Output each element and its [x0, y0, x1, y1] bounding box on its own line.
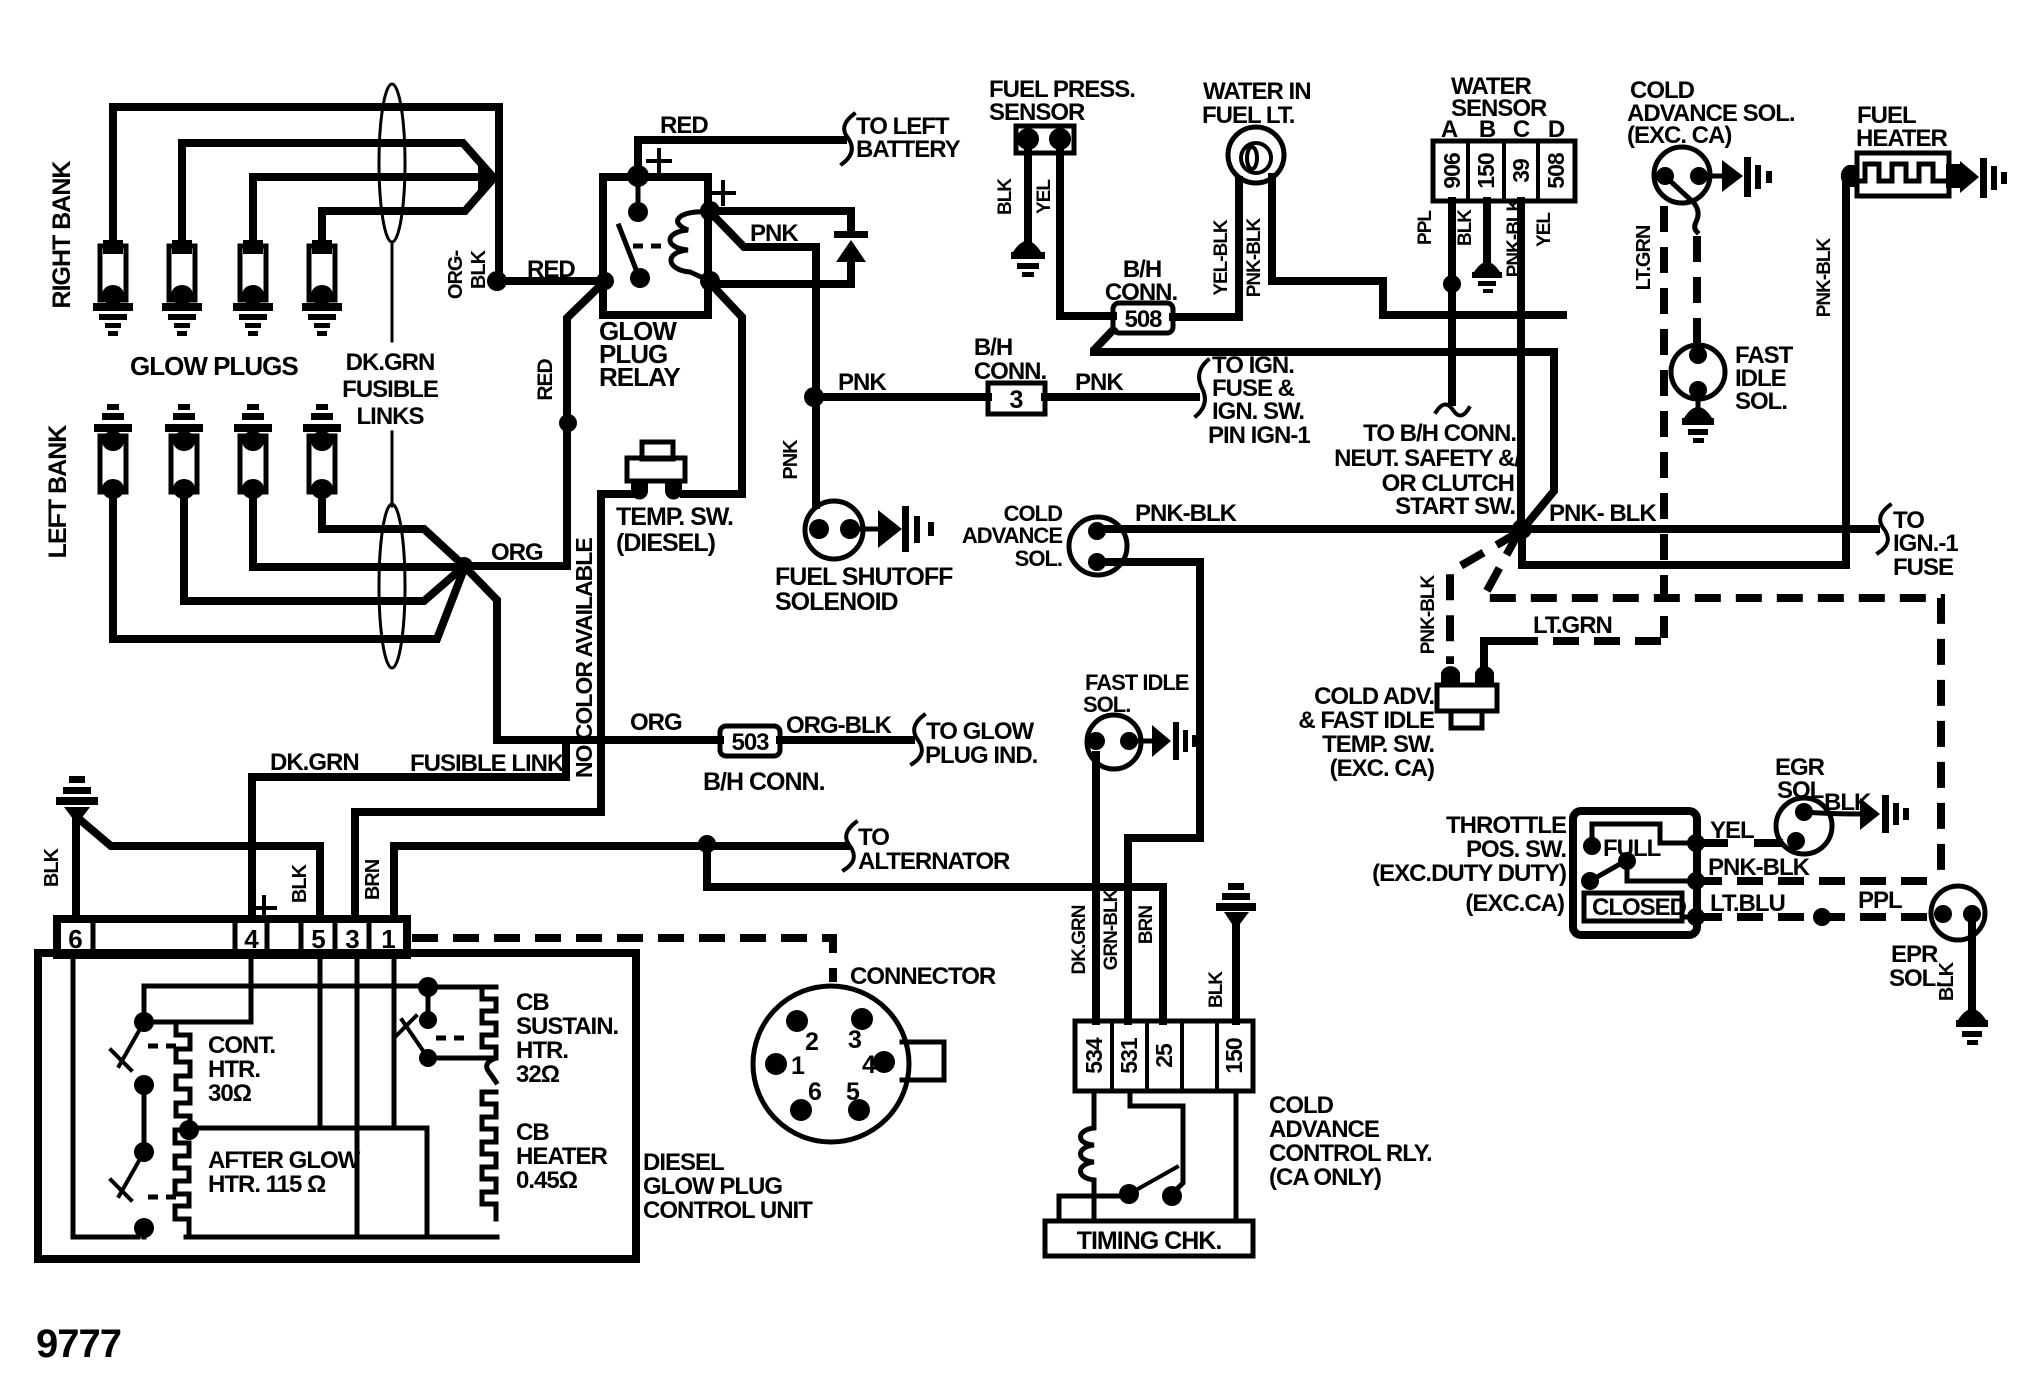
label CB HEATER 0.45: [516, 1119, 608, 1194]
svg-text:DK.GRN: DK.GRN: [346, 349, 435, 376]
plus sign coil: [712, 182, 734, 204]
connector pin 1: [765, 1052, 805, 1080]
label B/H CONN. 508: [1105, 256, 1178, 306]
svg-text:ORG: ORG: [491, 539, 543, 566]
wire alternator branch to conn 25: [707, 844, 1163, 1021]
wire PNK-BLK lamp to water sensor D: [1272, 177, 1563, 315]
wire temp sw module right lug riser: [1484, 641, 1514, 666]
svg-text:TO GLOW: TO GLOW: [926, 718, 1035, 745]
wire PNK from coil+ down: [712, 214, 816, 397]
wire YEL to EGR sol: [1696, 839, 1779, 847]
water sensor pin letters A B C D: [1441, 116, 1565, 143]
CB sustain link dashes: [436, 1036, 468, 1041]
wire switch1 to switch2: [142, 1085, 147, 1152]
svg-text:NEUT. SAFETY &/: NEUT. SAFETY &/: [1334, 445, 1521, 472]
throttle switch PNK-BLK terminal: [1687, 872, 1705, 890]
bracket TO GLOW PLUG IND: [912, 715, 924, 764]
svg-text:PIN IGN-1: PIN IGN-1: [1208, 422, 1310, 449]
label COLD ADVANCE SOL. middle: [962, 501, 1062, 571]
B/H connector 508: [1113, 303, 1173, 333]
label TO LEFT BATTERY: [856, 113, 961, 163]
junction dot LT.BLU PPL splice: [1813, 908, 1831, 926]
svg-text:ORG: ORG: [630, 709, 682, 736]
svg-text:SENSOR: SENSOR: [989, 99, 1085, 126]
bracket TO IGN FUSE: [1196, 360, 1208, 416]
wire dashed cold adv sol to fast idle sol: [1693, 236, 1701, 346]
label COLD ADVANCE CONTROL RLY. (CA ONLY): [1269, 1092, 1432, 1191]
svg-text:CB: CB: [516, 989, 549, 1016]
resistor CB SUSTAIN HTR. 32ohm: [482, 987, 496, 1082]
fusible links bundle line lower: [391, 432, 394, 506]
svg-text:25: 25: [1151, 1043, 1177, 1068]
svg-text:PNK-BLK: PNK-BLK: [1814, 237, 1835, 317]
svg-text:CONNECTOR: CONNECTOR: [850, 963, 996, 990]
label TO GLOW PLUG IND.: [925, 718, 1038, 769]
glow plug right bank 1: [93, 240, 133, 336]
svg-text:531: 531: [1116, 1037, 1142, 1074]
svg-text:TIMING CHK.: TIMING CHK.: [1077, 1227, 1222, 1255]
svg-text:5: 5: [846, 1078, 860, 1106]
glow plug left bank 2: [165, 404, 203, 499]
CB sustain moving contact: [419, 1049, 437, 1067]
control unit pin row: [57, 919, 407, 955]
wire RED to relay: [497, 277, 603, 285]
relay switch input dot: [596, 272, 614, 290]
ground fast idle sol mid: [1152, 722, 1197, 760]
svg-text:B/H: B/H: [974, 334, 1012, 361]
fuel heater left lug: [1841, 165, 1858, 187]
svg-text:SOL.: SOL.: [1889, 965, 1941, 992]
wire dashed pin1 to connector: [412, 938, 833, 982]
CB sustain bottom wire: [428, 1056, 496, 1061]
wire switch2 bottom: [142, 1228, 147, 1237]
CA relay switch blade: [1129, 1167, 1177, 1194]
label THROTTLE POS. SW.: [1372, 812, 1567, 917]
svg-text:BLK: BLK: [41, 847, 63, 887]
wire 508 tail to water sensor A: [1094, 330, 1554, 352]
relay switch blade: [619, 226, 637, 272]
temp sw module right lug: [1475, 666, 1494, 685]
label COLD ADVANCE SOL. (EXC. CA): [1627, 77, 1795, 149]
throttle switch full wire: [1592, 824, 1694, 846]
label CONT. HTR. 30: [208, 1032, 275, 1107]
wire solenoid to ground: [850, 527, 880, 532]
svg-text:9777: 9777: [36, 1322, 121, 1366]
svg-text:ADVANCE: ADVANCE: [962, 523, 1062, 548]
throttle switch CLOSED contact: [1581, 872, 1599, 890]
EGR solenoid: [1776, 798, 1832, 854]
svg-text:CONT.: CONT.: [208, 1032, 275, 1059]
svg-text:(DIESEL): (DIESEL): [616, 529, 716, 557]
svg-text:CONN.: CONN.: [1105, 279, 1178, 306]
throttle pos switch box: [1573, 811, 1697, 935]
label EPR SOL.: [1889, 941, 1941, 992]
svg-text:B/H CONN.: B/H CONN.: [703, 768, 825, 796]
svg-text:RED: RED: [534, 358, 557, 400]
wire ORG junction to relay column: [464, 562, 567, 570]
ground cold adv sol: [1722, 157, 1772, 197]
CA relay switch wire: [1130, 1091, 1183, 1192]
svg-text:508: 508: [1543, 152, 1569, 189]
svg-text:WATER IN: WATER IN: [1203, 78, 1311, 105]
temp switch right lug: [665, 481, 682, 500]
fast idle solenoid middle: [1087, 715, 1141, 769]
svg-text:HEATER: HEATER: [516, 1143, 608, 1170]
svg-text:2: 2: [805, 1028, 818, 1056]
svg-text:GLOW PLUG: GLOW PLUG: [643, 1173, 782, 1200]
label TO B/H CONN. NEUT. SAFETY: [1334, 420, 1521, 520]
switch 1 fixed contact: [134, 1012, 154, 1032]
wire PNK to B/H conn 3: [814, 393, 988, 401]
svg-text:BLK: BLK: [1206, 971, 1227, 1008]
svg-text:HTR.: HTR.: [516, 1037, 568, 1064]
svg-text:BRN: BRN: [1136, 906, 1157, 944]
junction dot PPL: [1443, 275, 1461, 293]
squiggle PPL break: [1436, 404, 1469, 415]
svg-text:HTR. 115 Ω: HTR. 115 Ω: [208, 1171, 326, 1198]
temp sw module left lug: [1441, 666, 1460, 685]
junction dot RED/ORG-BLK: [487, 271, 507, 291]
wire fast idle sol to ground: [1696, 390, 1701, 406]
svg-text:PNK: PNK: [838, 369, 887, 396]
svg-text:3: 3: [848, 1026, 861, 1054]
junction dot PNK-BLK: [1512, 519, 1532, 539]
wire left bank plug4 to junction: [322, 492, 462, 564]
svg-text:PNK- BLK: PNK- BLK: [1549, 500, 1657, 527]
svg-text:ALTERNATOR: ALTERNATOR: [858, 848, 1010, 875]
CA relay coil: [1081, 1091, 1095, 1221]
fast idle solenoid: [1671, 345, 1725, 399]
water in fuel lamp: [1228, 127, 1284, 183]
wire switch feed horizontal: [144, 986, 426, 1015]
wire RED down to ORG junction: [567, 281, 605, 566]
wire PNK-BLK water sensor C: [1517, 201, 1525, 526]
temp sw module body: [1437, 685, 1497, 728]
svg-text:BLK: BLK: [1936, 961, 1958, 1001]
CB sustain switch stem: [426, 987, 431, 1020]
glow plug left bank 3: [234, 404, 272, 499]
svg-text:DK.GRN: DK.GRN: [1069, 905, 1090, 974]
svg-text:SOL: SOL: [1777, 777, 1824, 804]
svg-text:YEL: YEL: [1710, 817, 1754, 844]
ground EPR: [1956, 1009, 1988, 1045]
bracket TO ALTERNATOR: [844, 822, 856, 870]
svg-text:PPL: PPL: [1415, 210, 1436, 245]
wire BLK fuel press sensor: [1024, 153, 1032, 240]
svg-text:SOLENOID: SOLENOID: [775, 588, 898, 616]
svg-text:BLK: BLK: [995, 178, 1016, 215]
wire cont htr top: [190, 1020, 251, 1025]
svg-text:FUEL LT.: FUEL LT.: [1202, 102, 1295, 129]
ground control unit BLK: [56, 776, 98, 819]
svg-text:508: 508: [1124, 306, 1162, 333]
svg-text:(EXC.DUTY DUTY): (EXC.DUTY DUTY): [1372, 860, 1566, 887]
svg-text:DIESEL: DIESEL: [643, 1149, 724, 1176]
svg-text:START SW.: START SW.: [1395, 493, 1515, 520]
connector circle: [753, 986, 909, 1142]
svg-text:EPR: EPR: [1891, 941, 1938, 968]
wire left bank plug3 to junction: [253, 492, 464, 567]
wire right bank plug2 to merge: [182, 143, 492, 240]
wire ORG-BLK to glow plug ind: [780, 736, 911, 744]
switch 1 moving contact: [134, 1075, 154, 1095]
svg-text:534: 534: [1081, 1037, 1107, 1074]
plus sign pin4: [253, 897, 275, 919]
svg-text:FUSIBLE: FUSIBLE: [342, 376, 439, 403]
fusible links bundle line upper: [391, 242, 394, 341]
wire cold adv sol to ground: [1699, 174, 1722, 179]
svg-text:FUSIBLE LINK: FUSIBLE LINK: [410, 750, 565, 777]
switch 2 moving contact: [134, 1218, 154, 1238]
svg-text:BLK: BLK: [1455, 209, 1476, 246]
label AFTER GLOW HTR. 115: [208, 1147, 361, 1198]
wire right bank plug3 to merge: [253, 177, 490, 240]
svg-text:RIGHT BANK: RIGHT BANK: [48, 161, 76, 309]
svg-text:(CA ONLY): (CA ONLY): [1269, 1164, 1381, 1191]
svg-text:PNK: PNK: [750, 220, 799, 247]
svg-text:39: 39: [1508, 159, 1534, 183]
svg-text:6: 6: [808, 1078, 821, 1106]
svg-text:PNK-BLK: PNK-BLK: [1504, 197, 1525, 277]
wire LT.GRN dashed vertical: [1660, 206, 1668, 638]
svg-text:CB: CB: [516, 1119, 549, 1146]
wire heater mid to pin5/pin1: [189, 1128, 497, 1237]
connector pin 5: [846, 1078, 870, 1121]
wire PNK-BLK dashed junction to temp sw module: [1450, 532, 1519, 664]
wire water sensor feed diagonal: [1526, 352, 1554, 525]
EPR solenoid: [1931, 886, 1985, 940]
switch 1 link dashes: [148, 1044, 180, 1049]
svg-text:ORG-BLK: ORG-BLK: [786, 712, 893, 739]
CB sustain top dot: [418, 977, 438, 997]
temp switch left lug: [631, 481, 648, 500]
merge arrowhead right bank: [478, 165, 500, 191]
svg-text:COLD ADV.: COLD ADV.: [1314, 683, 1434, 710]
connector pin 3: [848, 1008, 873, 1054]
glow plug relay box: [603, 177, 708, 315]
wire after glow bottom: [186, 1232, 427, 1237]
wire conn150 to timing chk: [1234, 1091, 1239, 1221]
throttle switch LT.BLU wire: [1682, 915, 1694, 920]
TIMING CHK box: [1045, 1221, 1253, 1256]
svg-text:SOL.: SOL.: [1015, 546, 1062, 571]
svg-text:COLD: COLD: [1269, 1092, 1334, 1119]
wire right bank plug1 to merge: [113, 107, 499, 277]
wire right bank plug4 to merge: [322, 180, 492, 240]
label FUEL SHUTOFF SOLENOID: [775, 563, 953, 616]
label B/H CONN. 3: [974, 334, 1047, 385]
switch 2 link dashes: [148, 1195, 180, 1200]
throttle switch blade: [1590, 860, 1627, 881]
label EGR SOL: [1775, 754, 1825, 804]
svg-text:150: 150: [1473, 153, 1499, 189]
wire BLK ground to conn 150: [1232, 920, 1240, 1021]
fusible links upper ellipse: [379, 84, 405, 242]
wire 508 to water-in-fuel lamp: [1173, 180, 1239, 317]
label TO IGN. FUSE & IGN. SW. PIN IGN-1: [1208, 352, 1310, 449]
wire left bank plug2 to junction: [184, 492, 462, 601]
wire pin6 inside: [73, 955, 138, 1237]
wire junction to ORG feed column: [464, 566, 497, 740]
label FAST IDLE SOL. middle: [1083, 670, 1189, 717]
cold advance control relay connector: [1075, 1021, 1253, 1091]
wire EPR sol to ground: [1968, 914, 1976, 1008]
label WATER SENSOR: [1451, 73, 1547, 122]
wire LT.GRN dashed lower: [1512, 637, 1664, 645]
label GLOW PLUG RELAY: [599, 316, 680, 392]
switch 1 blade: [111, 1022, 144, 1070]
glow plug right bank 4: [302, 240, 342, 336]
svg-text:SUSTAIN.: SUSTAIN.: [516, 1013, 619, 1040]
junction dot heater mid: [179, 1120, 199, 1140]
svg-text:RED: RED: [527, 256, 575, 283]
svg-text:906: 906: [1439, 153, 1465, 189]
glow plug left bank 1: [94, 404, 132, 499]
throttle switch YEL terminal: [1687, 834, 1705, 852]
label DIESEL GLOW PLUG CONTROL UNIT: [643, 1149, 813, 1224]
glow plug right bank 2: [162, 240, 202, 336]
CB sustain switch fixed: [419, 1011, 437, 1029]
ground water sensor B: [1472, 262, 1502, 293]
B/H connector 3: [988, 383, 1045, 414]
svg-text:503: 503: [731, 729, 769, 756]
CB sustain switch blade: [396, 1016, 428, 1058]
svg-text:YEL: YEL: [1534, 212, 1555, 247]
connector tab: [902, 1042, 944, 1080]
svg-text:ADVANCE: ADVANCE: [1269, 1116, 1380, 1143]
wire PNK-BLK dashed junction to throttle loop: [1483, 532, 1941, 881]
wire PNK conn3 to ign fuse: [1045, 393, 1196, 401]
water sensor connector: [1433, 141, 1575, 201]
label FUEL PRESS. SENSOR: [989, 76, 1135, 126]
svg-text:YEL-BLK: YEL-BLK: [1211, 219, 1232, 296]
wire fast idle sol mid to ground: [1129, 739, 1152, 744]
svg-text:CLOSED: CLOSED: [1592, 894, 1687, 921]
wire BRN pin1 to alternator: [394, 846, 846, 919]
svg-text:& FAST IDLE: & FAST IDLE: [1298, 707, 1435, 734]
svg-text:(EXC.CA): (EXC.CA): [1465, 890, 1564, 917]
relay top junction dot: [627, 165, 649, 187]
relay switch wire from top dot: [636, 176, 641, 204]
wire PNK-BLK junction to fuel heater column: [1522, 529, 1846, 565]
wire PNK-BLK dashed throttle: [1696, 877, 1941, 885]
wire BLK ground to pin6: [72, 815, 80, 919]
ground fuel heater: [1960, 158, 2007, 198]
cold advance solenoid exc ca: [1654, 147, 1710, 232]
svg-text:TO B/H CONN.: TO B/H CONN.: [1363, 420, 1516, 447]
cold advance solenoid middle: [1069, 517, 1127, 575]
svg-text:LINKS: LINKS: [357, 403, 425, 430]
svg-text:THROTTLE: THROTTLE: [1446, 812, 1567, 839]
svg-text:ORG-: ORG-: [445, 251, 467, 300]
wire PNK to fuel shutoff solenoid: [812, 397, 820, 505]
label DK.GRN FUSIBLE LINKS: [342, 349, 439, 430]
wire coil+ to diode top: [710, 211, 851, 233]
svg-text:RELAY: RELAY: [599, 362, 680, 392]
throttle switch common wire: [1627, 861, 1694, 881]
svg-text:PNK-BLK: PNK-BLK: [1418, 574, 1439, 654]
svg-text:LT.BLU: LT.BLU: [1710, 890, 1785, 917]
wire PNK-BLK cold advance to junction: [1100, 525, 1876, 533]
throttle switch common dot: [1618, 852, 1636, 870]
label WATER IN FUEL LT.: [1202, 78, 1311, 129]
B/H connector 503: [720, 726, 780, 756]
wire pin4 inside: [152, 955, 251, 1022]
svg-text:TEMP. SW.: TEMP. SW.: [616, 503, 733, 531]
label COLD ADV. & FAST IDLE TEMP. SW. (EXC. CA): [1298, 683, 1435, 782]
ground fast idle sol: [1682, 407, 1714, 443]
throttle switch FULL contact: [1583, 837, 1601, 855]
svg-text:3: 3: [1010, 386, 1023, 414]
wire temp switch to pin3 column: [355, 494, 640, 919]
fuel shutoff solenoid: [805, 501, 863, 559]
svg-text:SOL.: SOL.: [1735, 388, 1787, 415]
ground EGR: [1860, 795, 1909, 833]
resistor AFTER GLOW HTR. 115ohm: [175, 1130, 189, 1232]
svg-text:1: 1: [791, 1052, 805, 1080]
fuel heater element: [1853, 153, 1949, 196]
CA relay switch left wire: [1059, 1196, 1129, 1221]
svg-text:(EXC. CA): (EXC. CA): [1330, 755, 1434, 782]
svg-text:0.45Ω: 0.45Ω: [516, 1167, 578, 1194]
connector pin 4: [862, 1051, 895, 1079]
svg-text:GLOW PLUGS: GLOW PLUGS: [130, 351, 298, 381]
glow plug right bank 3: [233, 240, 273, 336]
svg-text:YEL: YEL: [1034, 179, 1055, 214]
svg-text:BLK: BLK: [468, 249, 490, 289]
wire pin5 inside: [318, 955, 323, 1128]
switch 2 blade: [111, 1152, 144, 1200]
wire BLK water sensor B: [1483, 201, 1491, 262]
label ORG-BLK: [445, 249, 490, 299]
CB sustain wire to element: [428, 985, 496, 990]
wire ORG to 503: [497, 736, 720, 744]
wire PPL water sensor A: [1448, 201, 1456, 402]
svg-text:30Ω: 30Ω: [208, 1080, 252, 1107]
svg-text:PNK-BLK: PNK-BLK: [1135, 500, 1238, 527]
bracket TO LEFT BATTERY: [842, 114, 854, 164]
switch 2 fixed contact: [134, 1142, 154, 1162]
ground fuel press sensor: [1011, 241, 1045, 277]
wire DK.GRN fusible link: [252, 740, 566, 919]
CA relay switch left contact: [1119, 1184, 1139, 1204]
svg-text:SENSOR: SENSOR: [1451, 95, 1547, 122]
junction dot PNK: [804, 387, 824, 407]
svg-text:FUEL SHUTOFF: FUEL SHUTOFF: [775, 563, 953, 591]
junction dot alternator: [698, 835, 716, 853]
svg-text:TEMP. SW.: TEMP. SW.: [1322, 731, 1434, 758]
svg-text:LT.GRN: LT.GRN: [1533, 612, 1612, 639]
fusible links lower ellipse: [379, 504, 405, 668]
ground fuel shutoff: [878, 506, 934, 552]
svg-text:CONTROL RLY.: CONTROL RLY.: [1269, 1140, 1432, 1167]
svg-text:HEATER: HEATER: [1856, 125, 1948, 152]
relay coil: [670, 212, 708, 280]
resistor CB HEATER 0.45ohm: [482, 1092, 496, 1219]
plus sign relay: [648, 150, 670, 172]
label TEMP. SW. (DIESEL): [616, 503, 733, 557]
relay switch link dashes: [633, 244, 666, 249]
svg-text:LEFT BANK: LEFT BANK: [44, 425, 72, 559]
label CB SUSTAIN HTR. 32: [516, 989, 619, 1088]
label TO ALTERNATOR: [858, 824, 1010, 875]
svg-text:POS. SW.: POS. SW.: [1466, 836, 1566, 863]
svg-text:PNK: PNK: [780, 439, 802, 480]
wire BLK ground to pin5: [78, 818, 320, 919]
svg-text:BRN: BRN: [362, 859, 384, 900]
wire PNK-BLK fuel heater: [1842, 186, 1850, 565]
wire pin3 inside: [355, 955, 360, 1237]
